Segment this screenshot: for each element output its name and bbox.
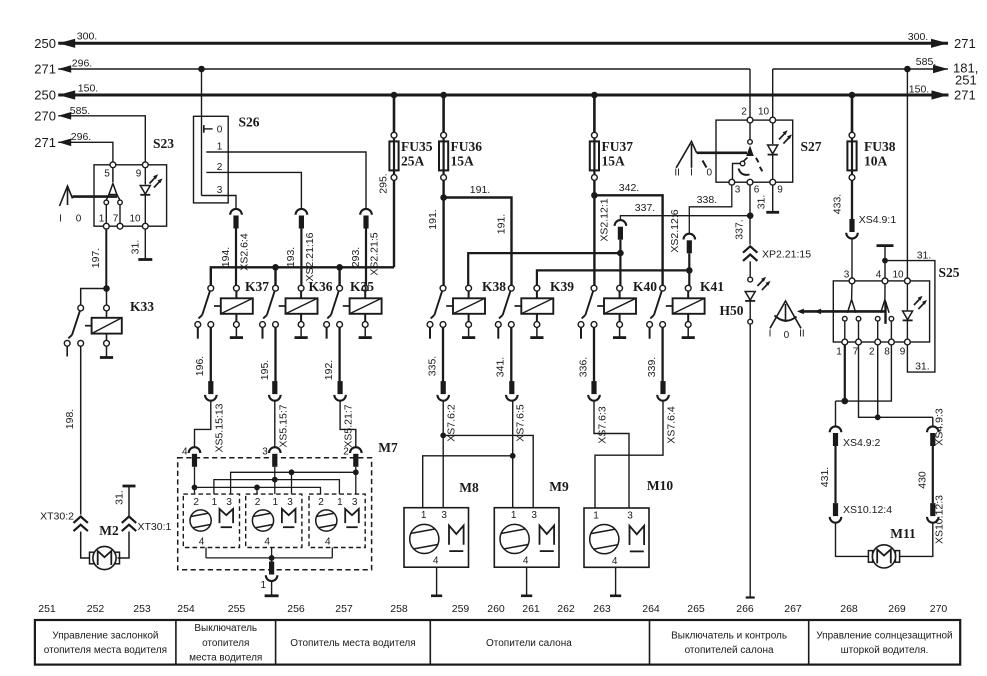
svg-text:431.: 431. bbox=[819, 467, 831, 487]
svg-text:I: I bbox=[769, 329, 772, 340]
svg-text:XS5.21:7: XS5.21:7 bbox=[343, 404, 355, 447]
M9 ground bbox=[521, 567, 532, 596]
svg-text:M7: M7 bbox=[378, 440, 398, 455]
wire 194 (XS2.6:4 to K37 coil) bbox=[220, 229, 236, 286]
svg-text:3: 3 bbox=[735, 185, 741, 196]
wire 430 (XS4.9:3 to XS10.12:3) bbox=[916, 446, 933, 503]
svg-text:FU36: FU36 bbox=[451, 139, 483, 154]
lamp H50 bbox=[719, 261, 770, 324]
junction dots on K36/K35 rail bbox=[272, 264, 343, 271]
svg-text:M8: M8 bbox=[459, 480, 479, 495]
svg-text:31.: 31. bbox=[915, 360, 930, 372]
svg-text:150.: 150. bbox=[78, 82, 98, 94]
svg-text:251: 251 bbox=[38, 603, 56, 615]
svg-text:15A: 15A bbox=[602, 154, 626, 169]
svg-text:300.: 300. bbox=[77, 30, 97, 42]
M7 pin 2 connector bbox=[343, 447, 361, 467]
svg-text:XS5.15:13: XS5.15:13 bbox=[213, 403, 225, 452]
svg-text:4: 4 bbox=[612, 556, 618, 567]
S25 switch contact 3-1/7 bbox=[843, 284, 861, 340]
svg-text:FU37: FU37 bbox=[602, 139, 634, 154]
wire XS2.12:6 to K39/K41 coils bbox=[537, 253, 693, 285]
svg-text:198.: 198. bbox=[64, 409, 76, 429]
S23 pin 7 bbox=[113, 214, 123, 230]
M7 fan motor 3 pin 4 wire bbox=[331, 548, 333, 558]
wire to K33 switch contact bbox=[81, 289, 107, 306]
svg-text:3: 3 bbox=[217, 185, 223, 196]
svg-text:XS4.9:3: XS4.9:3 bbox=[933, 408, 945, 446]
svg-text:335.: 335. bbox=[426, 356, 438, 376]
svg-text:6: 6 bbox=[754, 185, 760, 196]
S25 indicator LED bbox=[903, 284, 927, 340]
M7 internal rail pin3 motors bbox=[231, 472, 356, 494]
S27 pin 3 bbox=[729, 179, 741, 195]
svg-text:K39: K39 bbox=[550, 279, 574, 294]
wire 585 right segment (nets 181, 251) bbox=[773, 56, 979, 88]
svg-text:8: 8 bbox=[884, 347, 890, 358]
S27 pin 6 bbox=[747, 179, 760, 195]
svg-text:266: 266 bbox=[736, 603, 754, 615]
svg-text:9: 9 bbox=[136, 169, 142, 180]
wire 336 (K40 to XS7.6:3) bbox=[577, 327, 594, 381]
svg-text:K41: K41 bbox=[700, 279, 724, 294]
wire XS7.6:2 to M8 pin3 / M9 pin3 bbox=[440, 400, 533, 508]
svg-text:2: 2 bbox=[255, 497, 261, 508]
wire bus 150 (net 250-271, third row) bbox=[34, 82, 975, 102]
svg-text:XS10.12:3: XS10.12:3 bbox=[933, 495, 945, 544]
svg-text:10A: 10A bbox=[864, 154, 888, 169]
S27 pin 9 bbox=[770, 179, 783, 195]
svg-text:Управление солнцезащитной: Управление солнцезащитной bbox=[816, 631, 952, 642]
relay K41 bbox=[647, 279, 725, 339]
svg-text:II: II bbox=[799, 329, 805, 340]
wire XS2.12:1 to K38/K40 coils bbox=[468, 240, 624, 286]
fan heater M9 bbox=[494, 479, 569, 567]
wire 198 (K33 to XT30:2) bbox=[64, 346, 81, 515]
wire bus 300 (net 250-271, top row) bbox=[34, 30, 975, 51]
svg-text:S27: S27 bbox=[800, 139, 821, 154]
S25 pin 3 bbox=[844, 270, 855, 284]
svg-text:3: 3 bbox=[627, 511, 633, 522]
svg-text:194.: 194. bbox=[220, 247, 232, 267]
svg-text:271: 271 bbox=[34, 62, 56, 77]
wire XS10.12:4 to M11 bbox=[836, 522, 871, 556]
svg-text:0: 0 bbox=[784, 330, 790, 341]
S25 pin 10 bbox=[892, 270, 910, 284]
svg-text:251: 251 bbox=[955, 73, 977, 88]
svg-text:3: 3 bbox=[226, 497, 232, 508]
wire 196 (K37 to XS5.15:13) bbox=[194, 327, 211, 381]
wire S25 pins 1/8 to XS4.9:2 bbox=[836, 345, 892, 427]
svg-text:264: 264 bbox=[642, 603, 660, 615]
svg-text:270: 270 bbox=[930, 603, 948, 615]
wire XS5.15:7 to M7 pin 3 bbox=[274, 400, 276, 448]
wire 431 (XS4.9:2 to XS10.12:4) bbox=[819, 446, 836, 503]
wire XS4.9:1 to S25 pin 3 bbox=[851, 238, 853, 278]
wire M2 to XT30:1 bbox=[118, 532, 130, 559]
M7 internal rail pin2 motors bbox=[195, 467, 321, 494]
svg-text:254: 254 bbox=[177, 603, 195, 615]
svg-text:10: 10 bbox=[892, 270, 904, 281]
svg-text:250: 250 bbox=[34, 88, 56, 103]
svg-text:260: 260 bbox=[487, 603, 505, 615]
svg-text:259: 259 bbox=[452, 603, 470, 615]
fan heater M10 bbox=[584, 478, 673, 567]
relay K37 bbox=[195, 279, 269, 339]
M7 ground bbox=[265, 581, 279, 596]
svg-text:отопителя места водителя: отопителя места водителя bbox=[44, 645, 167, 656]
svg-text:K40: K40 bbox=[633, 279, 657, 294]
wire XS7.6:4 to M10 pin 1 bbox=[595, 400, 663, 508]
S27 indicator LED bbox=[768, 123, 792, 180]
svg-text:31.: 31. bbox=[114, 490, 126, 505]
S27 manual lever bbox=[674, 141, 747, 178]
svg-text:2: 2 bbox=[741, 107, 747, 118]
svg-text:31.: 31. bbox=[917, 249, 932, 261]
svg-text:0: 0 bbox=[217, 125, 223, 136]
net 31 loop around S25 bbox=[885, 249, 935, 372]
wire bus 296 (net 271, second row) bbox=[34, 57, 750, 76]
switch S25 box bbox=[833, 265, 959, 342]
svg-text:31.: 31. bbox=[755, 195, 767, 210]
svg-text:336.: 336. bbox=[577, 357, 589, 377]
svg-text:267: 267 bbox=[784, 603, 802, 615]
svg-text:1: 1 bbox=[273, 497, 279, 508]
svg-text:Выключатель: Выключатель bbox=[194, 623, 257, 634]
junction on 585 wire at S25 drop bbox=[904, 66, 911, 73]
svg-text:195.: 195. bbox=[259, 360, 271, 380]
svg-text:263: 263 bbox=[593, 603, 611, 615]
connector XS5.15:13 bbox=[205, 381, 225, 452]
svg-text:K33: K33 bbox=[130, 299, 154, 314]
S26 position 0 contact bbox=[204, 125, 223, 136]
S25 pin 8 bbox=[884, 339, 894, 357]
svg-text:K36: K36 bbox=[308, 279, 332, 294]
svg-text:0: 0 bbox=[707, 168, 713, 179]
svg-text:3: 3 bbox=[287, 497, 293, 508]
relay K33 bbox=[64, 289, 154, 358]
svg-text:2: 2 bbox=[869, 347, 875, 358]
wire XS5.21:7 to M7 pin 2 bbox=[340, 400, 356, 448]
svg-text:M10: M10 bbox=[647, 478, 673, 493]
wire 197 (S23 pin 1 to K33) bbox=[90, 229, 106, 286]
connector XS7.6:5 bbox=[506, 381, 526, 442]
svg-text:0: 0 bbox=[76, 214, 82, 225]
svg-text:K38: K38 bbox=[482, 279, 506, 294]
svg-text:XS5.15:7: XS5.15:7 bbox=[277, 404, 289, 447]
wire 342 (FU37 to K40/K41 contacts) bbox=[594, 180, 662, 285]
svg-text:253: 253 bbox=[133, 603, 151, 615]
connector XS7.6:4 bbox=[657, 381, 677, 444]
connector XS2.12:1 bbox=[598, 198, 626, 241]
svg-text:4: 4 bbox=[264, 537, 270, 548]
svg-text:XP2.21:15: XP2.21:15 bbox=[762, 249, 811, 261]
svg-text:257: 257 bbox=[335, 603, 353, 615]
svg-text:342.: 342. bbox=[619, 182, 639, 194]
wire S25 pins 7/2 to XS4.9:3 bbox=[859, 345, 933, 427]
svg-text:K37: K37 bbox=[245, 279, 269, 294]
svg-text:256: 256 bbox=[287, 603, 305, 615]
svg-text:1: 1 bbox=[212, 497, 218, 508]
connector XS7.6:2 bbox=[437, 381, 457, 442]
svg-text:339.: 339. bbox=[646, 357, 658, 377]
connector XS2.12:6 bbox=[669, 209, 695, 253]
svg-text:XS2.12:1: XS2.12:1 bbox=[598, 198, 610, 241]
S26 contact 2 and wire to XS2.21:16 bbox=[206, 162, 301, 210]
wire XS7.6:3 to M10 pin 3 bbox=[594, 400, 629, 508]
svg-text:585.: 585. bbox=[70, 105, 90, 117]
connector XS10.12:3 bbox=[927, 495, 945, 544]
svg-text:15A: 15A bbox=[451, 154, 475, 169]
motor M2 bbox=[90, 523, 120, 570]
svg-text:258: 258 bbox=[390, 603, 408, 615]
svg-text:XS2.12:6: XS2.12:6 bbox=[669, 209, 681, 252]
wire XS5.15:13 to M7 pin 4 bbox=[195, 400, 211, 448]
S25 pin 2 bbox=[869, 339, 881, 357]
svg-text:25A: 25A bbox=[401, 154, 425, 169]
switch S23 box bbox=[94, 136, 174, 226]
wire 193 (XS2.21:16 to K36 coil) bbox=[285, 229, 301, 286]
wire XT30:2 to M2 bbox=[81, 532, 92, 559]
svg-text:3: 3 bbox=[441, 510, 447, 521]
M7 fan motor 1 dashed box bbox=[183, 494, 239, 547]
svg-text:FU35: FU35 bbox=[401, 139, 433, 154]
svg-text:7: 7 bbox=[113, 214, 119, 225]
fuse FU35 25A bbox=[389, 95, 432, 180]
svg-text:K35: K35 bbox=[350, 279, 374, 294]
M7 fan motor 1 pin 4 wire bbox=[205, 548, 207, 558]
svg-text:4: 4 bbox=[182, 447, 188, 458]
fuse FU38 10A bbox=[847, 95, 895, 180]
S26 contact 3 and wire to XS2.6:4 bbox=[202, 185, 237, 210]
wire 295 (FU35 to relay supply rail) bbox=[377, 173, 394, 267]
S23 indicator LED bbox=[140, 168, 162, 224]
wire 296 bus drop to S27 pin 2 bbox=[749, 69, 751, 117]
relay supply rail K37-K35 bbox=[211, 267, 394, 285]
svg-text:3: 3 bbox=[844, 270, 850, 281]
svg-text:S23: S23 bbox=[153, 136, 174, 151]
svg-text:270: 270 bbox=[34, 108, 56, 123]
S27 pin 10 bbox=[758, 107, 776, 124]
svg-text:M9: M9 bbox=[549, 479, 569, 494]
fuse FU36 15A bbox=[439, 95, 482, 180]
svg-text:XS7.6:3: XS7.6:3 bbox=[597, 406, 609, 444]
S27 switch contact bbox=[733, 123, 763, 180]
svg-text:10: 10 bbox=[758, 107, 770, 118]
connector XS4.9:1 bbox=[846, 214, 896, 239]
svg-text:4: 4 bbox=[199, 537, 205, 548]
svg-text:Отопители салона: Отопители салона bbox=[486, 638, 572, 649]
S23 ground 31 at pin 10 bbox=[129, 229, 152, 260]
S23 pin 5 bbox=[104, 162, 116, 180]
svg-text:296.: 296. bbox=[72, 57, 92, 69]
terminal 31 above XT30:1 bbox=[114, 486, 136, 516]
svg-text:XS7.6:4: XS7.6:4 bbox=[666, 406, 678, 444]
wire from 296 bus into S26 bbox=[201, 69, 203, 196]
switch S27 box bbox=[716, 120, 822, 182]
svg-text:338.: 338. bbox=[697, 194, 717, 206]
switch S26 box bbox=[194, 115, 260, 203]
svg-text:Управление заслонкой: Управление заслонкой bbox=[52, 631, 158, 642]
svg-text:XS10.12:4: XS10.12:4 bbox=[843, 504, 892, 516]
M7 wire pin1 mid drop bbox=[274, 467, 276, 494]
svg-text:191.: 191. bbox=[496, 214, 508, 234]
svg-text:150.: 150. bbox=[909, 84, 929, 96]
svg-text:252: 252 bbox=[87, 603, 105, 615]
junction on pin4 ground stem bbox=[882, 258, 888, 264]
wire 296 to S23 pin 5 (net 271) bbox=[34, 131, 113, 162]
svg-text:2: 2 bbox=[193, 497, 199, 508]
junction at K33 feed bbox=[103, 285, 110, 292]
svg-text:265: 265 bbox=[687, 603, 705, 615]
S26 contact 1 and wire to XS2.21:5 bbox=[206, 142, 366, 210]
function zone table bbox=[35, 620, 960, 665]
wire 195 (K36 to XS5.15:7) bbox=[259, 327, 276, 381]
M7 pin 3 connector bbox=[262, 447, 280, 467]
svg-text:1: 1 bbox=[260, 580, 266, 591]
wire H50 down to column 266 bbox=[746, 324, 755, 597]
wire 191 (FU36 to K38/K39 contacts) bbox=[427, 180, 512, 285]
svg-text:271: 271 bbox=[954, 88, 976, 103]
relay K40 bbox=[578, 279, 657, 339]
ground 31 above S25 pin 4 bbox=[877, 246, 894, 279]
M7 fan motor 2 dashed box bbox=[246, 494, 302, 547]
wire 192 (K35 to XS5.21:7) bbox=[323, 327, 340, 381]
svg-text:10: 10 bbox=[129, 214, 141, 225]
wire 338 (S27 pin 3 to XS2.12:6) bbox=[689, 185, 732, 234]
svg-text:4: 4 bbox=[433, 556, 439, 567]
svg-text:197.: 197. bbox=[90, 248, 102, 268]
connector XS4.9:2 bbox=[830, 426, 881, 449]
junction at FU37 branch bbox=[591, 192, 598, 199]
M7 pin 4 connector bbox=[182, 447, 200, 467]
svg-text:XS2.6:4: XS2.6:4 bbox=[239, 233, 251, 271]
connector XS2.21:5 bbox=[360, 209, 380, 276]
S25 pin 4 bbox=[876, 270, 888, 284]
svg-text:1: 1 bbox=[593, 511, 599, 522]
svg-text:I: I bbox=[59, 214, 62, 225]
svg-text:271: 271 bbox=[954, 36, 976, 51]
fan heater M8 bbox=[404, 480, 479, 567]
wire 339 (K41 to XS7.6:4) bbox=[646, 327, 663, 381]
svg-text:250: 250 bbox=[34, 36, 56, 51]
relay K35 bbox=[324, 279, 382, 339]
S23 switch contact bbox=[104, 168, 122, 224]
svg-text:433.: 433. bbox=[831, 194, 843, 214]
svg-text:192.: 192. bbox=[323, 360, 335, 380]
svg-text:отопителей салона: отопителей салона bbox=[685, 645, 774, 656]
S27 pin 2 bbox=[741, 107, 753, 124]
svg-text:295.: 295. bbox=[377, 173, 389, 193]
svg-text:1: 1 bbox=[99, 214, 105, 225]
svg-text:II: II bbox=[674, 168, 680, 179]
svg-text:337.: 337. bbox=[733, 219, 745, 239]
svg-text:193.: 193. bbox=[285, 247, 297, 267]
connector XS4.9:3 bbox=[927, 408, 945, 446]
wire 585 to S23 pin 9 (net 270) bbox=[34, 105, 145, 162]
M10 ground bbox=[610, 567, 621, 596]
S23 pin 10 bbox=[129, 214, 148, 230]
wire 293 (XS2.21:5 to K35 coil) bbox=[350, 229, 366, 286]
wire 585 drop to S25 pin 10 bbox=[906, 69, 908, 278]
svg-text:2: 2 bbox=[318, 497, 324, 508]
junction on 296 bus at S26 drop bbox=[198, 66, 205, 73]
relay K39 bbox=[495, 279, 574, 339]
S23 pin 1 bbox=[99, 214, 109, 230]
svg-text:3: 3 bbox=[262, 447, 268, 458]
S25 switch contact 4-2/8 bbox=[875, 284, 893, 340]
connector XS7.6:3 bbox=[588, 381, 608, 444]
relay K38 bbox=[427, 279, 506, 339]
svg-text:255: 255 bbox=[228, 603, 246, 615]
wire 341 (K39 to XS7.6:5) bbox=[495, 327, 512, 381]
M7 fan motor 3 dashed box bbox=[309, 494, 365, 547]
svg-text:296.: 296. bbox=[71, 131, 91, 143]
S25 pin 1 bbox=[836, 339, 847, 357]
connector XS5.15:7 bbox=[269, 381, 289, 448]
svg-text:S25: S25 bbox=[938, 265, 959, 280]
S23 manual lever bbox=[59, 186, 117, 225]
svg-text:430: 430 bbox=[916, 471, 928, 489]
M7 wire pin3 rail drops bbox=[292, 467, 356, 494]
wire 585 drop to S27 pin 10 bbox=[772, 69, 774, 117]
wire 335 (K38 to XS7.6:2) bbox=[426, 327, 443, 381]
S25 pin 9 bbox=[900, 339, 911, 357]
svg-text:1: 1 bbox=[511, 510, 517, 521]
heater unit M7 dashed box bbox=[178, 440, 398, 570]
fuse FU37 15A bbox=[590, 95, 633, 180]
junction at FU36 branch bbox=[440, 194, 447, 201]
M7 common rail to pin 1 bbox=[206, 555, 332, 562]
M7 junction dots bbox=[192, 469, 359, 490]
connector XP2.21:15 bbox=[743, 246, 811, 261]
column ruler numbers 251-270 bbox=[38, 603, 947, 615]
svg-text:268: 268 bbox=[840, 603, 858, 615]
svg-text:FU38: FU38 bbox=[864, 139, 896, 154]
wire XS10.12:3 to M11 bbox=[898, 522, 933, 556]
svg-text:341.: 341. bbox=[495, 357, 507, 377]
svg-text:262: 262 bbox=[557, 603, 575, 615]
M7 internal rail pin1 motors bbox=[214, 480, 340, 495]
connector XS2.21:16 bbox=[296, 209, 316, 282]
svg-text:места водителя: места водителя bbox=[189, 652, 262, 663]
svg-text:2: 2 bbox=[217, 162, 223, 173]
svg-text:1: 1 bbox=[836, 347, 842, 358]
M7 fan motor 2 pin 4 wire bbox=[271, 548, 273, 558]
wire 337 (S27 pin 6 branch to XS2.12:1) bbox=[620, 202, 750, 221]
svg-text:4: 4 bbox=[523, 556, 529, 567]
svg-text:XT30:2: XT30:2 bbox=[40, 511, 74, 523]
S25 mechanical link bbox=[797, 309, 886, 315]
svg-text:300.: 300. bbox=[908, 31, 928, 43]
S25 manual lever bbox=[769, 301, 805, 341]
relay K36 bbox=[260, 279, 333, 339]
motor M11 bbox=[868, 526, 916, 568]
svg-text:269: 269 bbox=[888, 603, 906, 615]
svg-text:31.: 31. bbox=[129, 240, 141, 255]
svg-text:3: 3 bbox=[352, 497, 358, 508]
connector XT30:1 bbox=[122, 517, 172, 534]
svg-text:XS2.21:5: XS2.21:5 bbox=[369, 232, 381, 275]
M7 pin 1 connector bbox=[260, 562, 277, 592]
junction dots on 150 bus at fuse taps bbox=[391, 92, 856, 99]
svg-text:293.: 293. bbox=[350, 247, 362, 267]
svg-text:I: I bbox=[690, 168, 693, 179]
wire 337 (S27 pin 6 down to H50) bbox=[733, 185, 753, 245]
wire 433 (FU38 to XS4.9:1) bbox=[831, 180, 852, 219]
svg-text:отопителя: отопителя bbox=[202, 638, 249, 649]
svg-text:H50: H50 bbox=[719, 303, 743, 318]
